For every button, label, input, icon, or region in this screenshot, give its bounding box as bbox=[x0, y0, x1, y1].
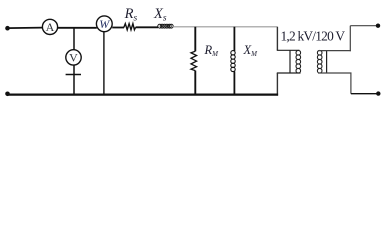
wire: V branch vertical (bottom) bbox=[73, 65, 75, 95]
wire: XS to transformer corner (gray) bbox=[173, 26, 278, 28]
wire: ammeter to wattmeter, node at V branch bbox=[58, 27, 97, 29]
wire: RM branch vertical bottom bbox=[194, 71, 196, 95]
inductor XM coil (vertical) bbox=[231, 51, 235, 72]
wire: primary top lead bbox=[277, 49, 300, 51]
svg-text:V: V bbox=[69, 51, 78, 65]
wire: secondary bottom jog down bbox=[350, 73, 352, 94]
wire: wattmeter to resistor RS bbox=[112, 27, 124, 29]
wire: XM branch vertical top bbox=[233, 27, 235, 51]
node: top-left input terminal bbox=[5, 26, 10, 31]
wire: bottom rail bbox=[8, 93, 279, 95]
node: bottom-left input terminal bbox=[5, 92, 10, 97]
transformer T1 primary return line bbox=[289, 50, 291, 73]
wire: primary return vertical to bottom rail bbox=[276, 73, 278, 96]
svg-text:A: A bbox=[46, 20, 55, 34]
transformer T1 secondary return line bbox=[326, 51, 328, 73]
wire: secondary top jog up bbox=[349, 26, 351, 52]
wire: primary feed vertical bbox=[276, 27, 278, 51]
svg-text:1,2 kV/120 V: 1,2 kV/120 V bbox=[281, 29, 346, 44]
wire: RS to inductor XS bbox=[136, 26, 158, 28]
transformer T1 secondary coil bbox=[317, 50, 322, 73]
inductor XS coil bbox=[158, 24, 173, 28]
voltmeter V1 bbox=[66, 50, 81, 65]
node: voltmeter terminal tick bbox=[66, 74, 81, 76]
ammeter A1 bbox=[42, 19, 57, 34]
svg-text:RM: RM bbox=[204, 43, 220, 58]
svg-text:XM: XM bbox=[243, 43, 259, 58]
wire: XM branch vertical bottom bbox=[233, 71, 235, 94]
wire: secondary bottom lead bbox=[318, 72, 352, 74]
svg-text:Xs: Xs bbox=[153, 6, 167, 24]
node: bottom-right output terminal bbox=[376, 91, 380, 95]
wire: V branch vertical (top) bbox=[73, 28, 75, 51]
wire: secondary bottom to terminal bbox=[351, 93, 379, 95]
wire: primary bottom lead bbox=[277, 72, 301, 74]
resistor RS zigzag bbox=[124, 24, 136, 30]
svg-text:W: W bbox=[99, 17, 110, 31]
transformer T1 primary coil bbox=[296, 50, 301, 73]
wire: wattmeter voltage coil drop bbox=[103, 32, 105, 95]
svg-text:Rs: Rs bbox=[124, 6, 138, 24]
wire: RM branch vertical top bbox=[194, 27, 196, 52]
wattmeter W1 bbox=[96, 16, 112, 32]
wire: top-left to ammeter bbox=[8, 27, 43, 30]
wire: secondary top to terminal bbox=[350, 25, 378, 27]
node: top-right output terminal bbox=[376, 24, 380, 28]
wire: secondary top lead bbox=[318, 50, 351, 52]
resistor RM zigzag (vertical) bbox=[191, 51, 197, 70]
